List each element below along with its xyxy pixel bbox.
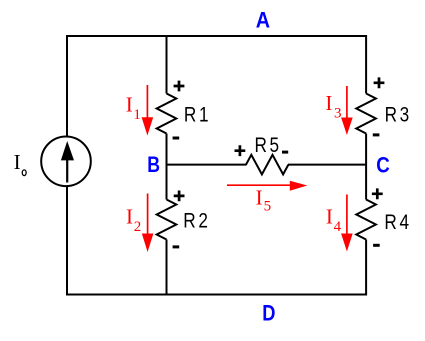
label I0 — [14, 150, 27, 176]
wire R5 to node C — [288, 164, 366, 166]
resistor R3 — [356, 94, 376, 134]
svg-text:I: I — [256, 185, 263, 209]
resistor R2 — [157, 200, 177, 240]
svg-text:5: 5 — [264, 199, 272, 215]
svg-text:C: C — [376, 154, 390, 178]
wire right branch (R4 to D) — [365, 240, 367, 296]
current arrow I5 — [227, 181, 307, 191]
polarity plus R2 — [174, 191, 185, 202]
current arrow I2 — [142, 194, 154, 253]
svg-text:D: D — [262, 302, 275, 326]
svg-text:R2: R2 — [183, 210, 210, 233]
polarity minus R1 — [173, 137, 180, 140]
polarity plus R3 — [374, 77, 385, 88]
svg-text:R1: R1 — [184, 104, 211, 127]
svg-text:2: 2 — [134, 219, 142, 235]
polarity plus R1 — [174, 81, 185, 92]
wire left branch upper (A to I0) — [66, 35, 68, 137]
polarity minus R4 — [373, 244, 380, 247]
svg-text:4: 4 — [334, 219, 342, 235]
polarity plus R5 — [235, 145, 246, 156]
label I4 — [326, 204, 342, 235]
label I3 — [325, 91, 341, 122]
resistor R1 — [157, 94, 177, 134]
current arrow I4 — [341, 195, 353, 252]
svg-text:A: A — [256, 8, 270, 32]
svg-text:I: I — [126, 93, 133, 117]
svg-text:I: I — [14, 150, 21, 174]
svg-text:I: I — [325, 91, 332, 115]
label I2 — [126, 205, 141, 236]
resistor R5 — [246, 155, 288, 175]
svg-text:R3: R3 — [385, 104, 412, 127]
current arrow I1 — [142, 85, 154, 136]
wire node A (top horizontal) — [66, 35, 367, 37]
polarity minus R2 — [173, 245, 180, 248]
label I1 — [126, 93, 141, 124]
svg-text:R5: R5 — [255, 135, 282, 158]
svg-text:R4: R4 — [384, 211, 411, 234]
svg-text:B: B — [147, 153, 160, 177]
svg-text:1: 1 — [133, 107, 141, 123]
current source I0 — [41, 137, 91, 187]
wire middle branch (R1 to node B) — [166, 134, 168, 200]
wire right branch (A to R3) — [365, 35, 367, 94]
wire left branch lower (I0 to D) — [66, 186, 68, 296]
polarity minus R5 — [282, 151, 288, 154]
current arrow I3 — [341, 86, 353, 135]
resistor R4 — [356, 200, 376, 240]
wire node D (bottom horizontal) — [66, 294, 367, 296]
wire middle branch (R2 to D) — [166, 240, 168, 296]
wire middle branch (A to R1) — [166, 35, 168, 94]
label I5 — [256, 185, 272, 214]
wire node B to R5 — [167, 164, 247, 166]
svg-text:3: 3 — [334, 105, 342, 121]
svg-text:I: I — [126, 205, 133, 229]
polarity minus R3 — [373, 133, 380, 136]
polarity plus R4 — [372, 188, 383, 199]
wire right branch (R3 to node C) — [365, 134, 367, 200]
svg-text:I: I — [326, 204, 333, 228]
